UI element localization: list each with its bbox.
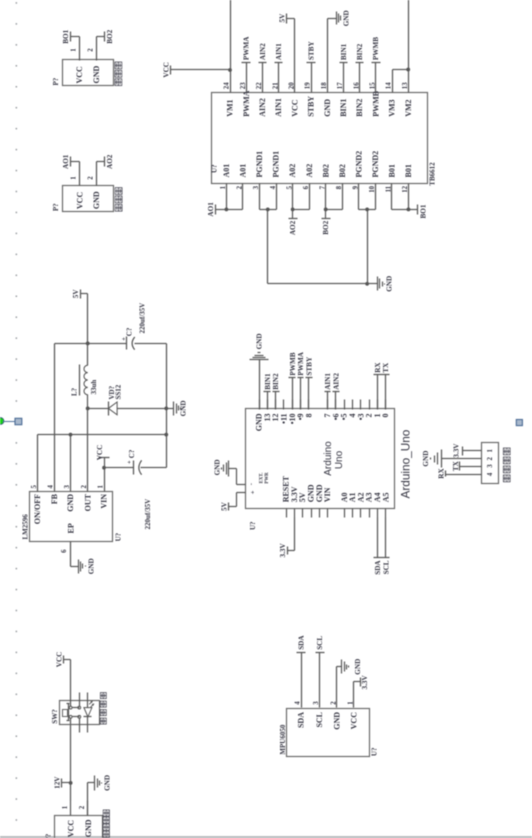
svg-text:U?: U? <box>370 747 378 756</box>
power flag 3.3V at mpu <box>361 675 370 690</box>
wire bt pin2 gnd <box>442 458 482 460</box>
diode VD? SS12 <box>88 384 167 415</box>
svg-text:13: 13 <box>402 82 409 89</box>
arduino left pin names <box>282 475 391 502</box>
output rail <box>55 343 167 345</box>
TB6612 left pin numbers 1-12 <box>220 185 409 192</box>
svg-text:BO2: BO2 <box>106 29 114 43</box>
svg-text:U?: U? <box>249 521 257 530</box>
junction pin12 BO1 <box>407 208 411 212</box>
pin 1 right motor <box>71 37 80 61</box>
svg-text:4: 4 <box>270 185 277 189</box>
svg-text:VCC: VCC <box>96 445 104 461</box>
ground GND at diode <box>167 400 188 416</box>
svg-text:VM2: VM2 <box>404 99 413 116</box>
svg-text:GND: GND <box>323 99 332 117</box>
net flag BO1 at motor <box>62 29 79 43</box>
svg-text:GND: GND <box>385 276 393 292</box>
svg-text:RX: RX <box>438 468 446 479</box>
marker blue square right <box>516 420 522 426</box>
svg-text:P?: P? <box>52 77 60 85</box>
svg-text:FB: FB <box>50 493 59 504</box>
svg-text:2: 2 <box>487 457 494 461</box>
svg-text:GND: GND <box>104 775 112 791</box>
svg-text:SCL: SCL <box>316 636 324 650</box>
ext pwr pins <box>248 472 270 494</box>
svg-text:19: 19 <box>305 82 312 89</box>
svg-text:STBY: STBY <box>307 96 316 117</box>
svg-text:+: + <box>250 490 257 494</box>
svg-text:GND: GND <box>422 451 430 467</box>
svg-text:GND: GND <box>256 333 264 349</box>
svg-text:24: 24 <box>224 82 231 89</box>
junction pins9-10 <box>365 208 369 212</box>
net flag AO2 at motor <box>97 154 115 169</box>
svg-text:1: 1 <box>98 485 105 489</box>
svg-text:3: 3 <box>487 464 494 468</box>
svg-text:BIN2: BIN2 <box>355 99 364 117</box>
svg-text:5V: 5V <box>221 501 229 511</box>
junction VIN node <box>102 466 106 470</box>
wire ext pwr plus to 5V <box>229 493 246 507</box>
svg-text:SDA: SDA <box>297 712 306 728</box>
wire bt pin4 RX <box>446 474 482 476</box>
TB6612 left pin names <box>222 151 413 178</box>
wire pgnd1 to gnd <box>267 210 269 284</box>
svg-text:BO1: BO1 <box>62 29 70 43</box>
TB6612 right pin numbers 24-13 <box>224 82 409 89</box>
ground GND at driver <box>368 276 394 292</box>
pin 6 EP stub <box>70 542 72 567</box>
net flag TX at bt <box>452 460 460 471</box>
svg-text:14: 14 <box>386 82 393 89</box>
net flag STBY at arduino <box>305 356 313 377</box>
wire pin9 PWMA <box>300 378 302 410</box>
svg-text:TB6612: TB6612 <box>428 162 436 186</box>
module U? Arduino_Uno <box>246 409 395 531</box>
wire pin1 RX <box>377 375 379 410</box>
svg-text:AIN1: AIN1 <box>324 373 332 390</box>
svg-text:PGND1: PGND1 <box>255 151 264 178</box>
wire VM3 VM2 join <box>393 70 409 93</box>
svg-text:B01: B01 <box>388 164 397 177</box>
junction gnd bus <box>164 433 168 437</box>
svg-text:A01: A01 <box>239 164 248 178</box>
svg-text:GND: GND <box>92 66 101 84</box>
svg-text:U?: U? <box>114 532 122 541</box>
svg-text:220uf/35V: 220uf/35V <box>139 303 147 334</box>
svg-text:1: 1 <box>71 176 78 180</box>
svg-text:GND: GND <box>342 10 350 26</box>
svg-text:EP: EP <box>66 523 75 533</box>
svg-text:PWMA: PWMA <box>297 351 305 375</box>
net flag AO2 at driver <box>289 210 298 236</box>
capacitor C? output 220uf/35V <box>120 303 146 350</box>
marker blue square left <box>15 418 22 424</box>
svg-text:33uh: 33uh <box>90 380 98 395</box>
power flag 12V <box>54 776 71 789</box>
svg-text:2: 2 <box>88 176 95 180</box>
svg-text:AIN1: AIN1 <box>275 43 283 60</box>
wire mpu vcc <box>354 682 361 708</box>
svg-text:A5: A5 <box>381 493 390 503</box>
svg-text:6: 6 <box>303 185 310 189</box>
svg-text:3.3V: 3.3V <box>279 543 287 558</box>
wire mpu SDA <box>301 653 303 708</box>
svg-text:SDA: SDA <box>374 560 382 575</box>
svg-text:VCC: VCC <box>75 192 84 210</box>
net flag SDA at mpu <box>297 635 306 653</box>
svg-text:PWR: PWR <box>265 472 270 484</box>
wire pin8 STBY <box>308 378 310 410</box>
ground GND at ext pwr inverted <box>213 459 228 476</box>
gnd vertical rail <box>38 434 167 436</box>
TB6612 right pin names <box>226 90 413 116</box>
power flag VCC at driver <box>162 62 230 78</box>
svg-text:VIN: VIN <box>323 487 332 502</box>
net flag TX at arduino <box>382 362 391 374</box>
svg-text:AO2: AO2 <box>106 154 114 169</box>
pin numbers LM2596 <box>31 485 104 553</box>
svg-text:+: + <box>126 460 133 464</box>
pin 1 battery <box>62 801 71 816</box>
power flag VCC at VIN <box>96 445 110 468</box>
svg-text:12V: 12V <box>54 776 62 789</box>
svg-text:AIN2: AIN2 <box>258 98 267 117</box>
junction VM node <box>406 68 410 72</box>
regulator U? LM2596 <box>21 492 122 542</box>
switch blade and button <box>63 704 70 721</box>
pin 2 battery <box>79 801 88 816</box>
connector P? left motor 左电机 <box>52 186 122 212</box>
svg-text:P?: P? <box>45 833 53 838</box>
svg-text:B01: B01 <box>404 164 413 177</box>
svg-text:GND: GND <box>84 819 93 837</box>
module U? MPU6050 <box>279 709 379 757</box>
svg-text:6: 6 <box>61 549 68 553</box>
marker link line <box>3 421 16 423</box>
svg-text:0: 0 <box>381 414 390 418</box>
svg-text:STBY: STBY <box>305 356 313 376</box>
svg-text:P?: P? <box>52 203 60 211</box>
svg-text:AIN1: AIN1 <box>274 98 283 117</box>
svg-text:PWMB: PWMB <box>289 352 297 375</box>
svg-text:BIN1: BIN1 <box>264 373 272 390</box>
wire GND pin to gnd rail <box>70 435 72 492</box>
svg-text:Uno: Uno <box>334 450 345 469</box>
svg-text:GND: GND <box>66 494 75 512</box>
svg-text:OUT: OUT <box>83 493 92 511</box>
TB6612 pin pair joins <box>227 209 409 211</box>
marker green probe <box>0 418 4 425</box>
svg-text:ON/OFF: ON/OFF <box>33 494 42 524</box>
wire battery- to ground <box>87 783 89 816</box>
wire VIN to VCC node <box>104 468 106 492</box>
svg-text:BIN2: BIN2 <box>356 43 364 60</box>
svg-text:VCC: VCC <box>290 99 299 117</box>
junction power ground <box>365 282 369 286</box>
net flag SDA <box>374 558 383 575</box>
svg-text:VIN: VIN <box>100 494 109 509</box>
svg-text:A01: A01 <box>222 164 231 178</box>
svg-text:B02: B02 <box>338 164 347 177</box>
wire A4 to SDA <box>377 518 379 558</box>
junction gnd rail pin3 <box>69 433 73 437</box>
svg-text:VCC: VCC <box>55 652 63 668</box>
svg-text:VCC: VCC <box>75 66 84 84</box>
svg-text:MPU6050: MPU6050 <box>279 724 287 754</box>
net flag BIN2 at arduino <box>272 373 280 391</box>
svg-text:220uf/35V: 220uf/35V <box>144 499 152 530</box>
net flag AO1 at driver <box>207 202 226 217</box>
svg-text:VCC: VCC <box>66 820 75 838</box>
arduino digital pin stubs <box>260 400 386 410</box>
ground bus wire <box>166 344 168 468</box>
wire 5V takeoff <box>87 294 89 344</box>
svg-text:3.3V: 3.3V <box>361 675 369 690</box>
net flag SCL at mpu <box>316 636 325 653</box>
net flag BO1 at driver <box>409 204 428 218</box>
svg-text:BIN1: BIN1 <box>339 99 348 117</box>
wire 3.3V pin flag <box>288 518 295 551</box>
module bluetooth 蓝牙模块 <box>482 443 511 484</box>
svg-text:PWMB: PWMB <box>371 90 380 116</box>
svg-text:PWMB: PWMB <box>372 37 380 60</box>
power flag 5V at arduino <box>221 501 229 511</box>
svg-text:PGND2: PGND2 <box>371 151 380 178</box>
wire pin0 TX <box>385 375 387 410</box>
svg-text:PWMA: PWMA <box>242 90 251 116</box>
net flag RX at arduino <box>374 362 382 375</box>
power flag 3.3V at arduino <box>279 543 288 558</box>
IC U? TB6612 motor driver <box>211 93 437 186</box>
junction switch node <box>86 407 90 411</box>
wire gnd pin arduino <box>259 360 261 410</box>
svg-text:SDA: SDA <box>298 635 306 650</box>
svg-text:AO1: AO1 <box>62 154 70 169</box>
net flag AO1 at motor <box>62 154 79 169</box>
wire VM1 to VCC <box>230 70 232 93</box>
svg-text:BO2: BO2 <box>322 220 330 234</box>
svg-text:VCC: VCC <box>349 712 358 730</box>
wire FB to output rail <box>54 344 56 492</box>
svg-text:BO1: BO1 <box>419 204 427 218</box>
junction diode gnd <box>164 407 168 411</box>
svg-text:8: 8 <box>304 414 313 418</box>
svg-text:AO1: AO1 <box>207 202 215 217</box>
junction pin1 AO1 <box>225 208 229 212</box>
svg-text:GND: GND <box>180 400 188 416</box>
power flag VCC main <box>55 652 70 668</box>
svg-text:BIN1: BIN1 <box>340 43 348 60</box>
wire pgnd2 to gnd <box>367 210 369 284</box>
svg-text:AO2: AO2 <box>289 220 297 235</box>
svg-text:C?: C? <box>128 449 136 458</box>
svg-text:VM1: VM1 <box>226 99 235 116</box>
wire VCC exit <box>230 0 232 70</box>
wire battery+ to switch <box>70 719 72 801</box>
pin 2 right motor <box>87 37 96 61</box>
svg-text:PGND1: PGND1 <box>272 151 281 178</box>
svg-text:VM3: VM3 <box>388 99 397 116</box>
junction 5V output node <box>86 342 90 346</box>
net flags right side <box>242 36 381 63</box>
svg-text:SCL: SCL <box>315 712 324 728</box>
LED inside switch <box>84 693 95 733</box>
svg-text:Arduino_Uno: Arduino_Uno <box>399 429 413 498</box>
arduino left pin stubs <box>287 509 386 518</box>
net flag BIN1 at arduino <box>264 373 272 391</box>
svg-text:SS12: SS12 <box>115 384 123 399</box>
svg-text:Arduino: Arduino <box>323 441 334 476</box>
wire ON/OFF to gnd rail <box>37 435 39 492</box>
svg-text:2: 2 <box>87 48 94 52</box>
svg-text:1: 1 <box>487 449 494 453</box>
svg-text:1: 1 <box>71 48 78 52</box>
svg-text:5V: 5V <box>278 13 286 23</box>
svg-text:23: 23 <box>240 82 247 89</box>
wire bt pin1 3.3V <box>463 450 482 452</box>
svg-text:4: 4 <box>487 472 494 476</box>
svg-text:B02: B02 <box>321 164 330 177</box>
svg-text:2: 2 <box>79 805 86 809</box>
power flag 3.3V at bt <box>453 443 463 458</box>
svg-text:AIN2: AIN2 <box>259 43 267 60</box>
wire bt pin3 TX <box>460 466 482 468</box>
ground GND at driver top <box>328 10 351 26</box>
svg-text:L?: L? <box>71 387 79 396</box>
svg-text:4: 4 <box>295 701 302 705</box>
net flag BO2 at motor <box>97 29 115 43</box>
wire pgnd vertical <box>268 283 368 285</box>
net flag RX at bt <box>438 468 446 479</box>
net flag AIN2 at arduino <box>332 373 340 392</box>
svg-text:TX: TX <box>452 460 460 471</box>
switch row2 stubs <box>79 693 81 733</box>
connector P? battery 锂电接口 <box>45 810 110 838</box>
svg-text:SCL: SCL <box>382 560 390 574</box>
svg-text:-: - <box>248 483 255 485</box>
inductor L? 33uh <box>71 344 98 409</box>
TB6612 right pin stubs <box>247 63 376 93</box>
connector P? right motor 右电机 <box>52 60 122 86</box>
net flag BO2 at driver <box>322 210 331 235</box>
ground GND at mpu <box>337 659 363 675</box>
switch SW1 自锁开关 <box>51 693 106 725</box>
ground GND at EP <box>71 558 96 574</box>
svg-text:GND: GND <box>354 659 362 675</box>
wire pin13 BIN1 <box>267 392 269 410</box>
wire pin7 AIN1 <box>327 392 329 410</box>
svg-text:TX: TX <box>382 362 390 373</box>
svg-text:GND: GND <box>213 459 221 475</box>
wire OUT to switch node <box>87 409 89 492</box>
ground GND at arduino sideways <box>250 333 269 359</box>
wire A5 to SCL <box>385 518 387 558</box>
power flag 5V at driver <box>278 13 286 24</box>
net flag AIN1 at arduino <box>324 373 332 392</box>
power flag 5V regulator <box>72 289 87 299</box>
wire ext pwr minus to gnd <box>229 469 246 485</box>
svg-text:U?: U? <box>211 164 219 173</box>
svg-text:+: + <box>120 337 127 341</box>
junction pin5 AO2 <box>291 208 295 212</box>
junction pin7 BO2 <box>324 208 328 212</box>
net flag SCL <box>382 558 391 575</box>
svg-text:VCC: VCC <box>162 62 170 78</box>
wire pin12 BIN2 <box>275 392 277 410</box>
svg-text:3.3V: 3.3V <box>453 443 461 458</box>
svg-text:1: 1 <box>62 805 69 809</box>
wire pin6 AIN2 <box>335 392 337 410</box>
pin 2 left motor <box>88 162 97 186</box>
TB6612 left pin stubs <box>227 184 409 210</box>
wire mpu gnd <box>336 667 338 708</box>
svg-text:4: 4 <box>48 485 55 489</box>
wire pin20 to 5V <box>287 19 295 93</box>
ground GND at bt inverted <box>422 450 441 468</box>
mpu pin numbers <box>295 701 355 705</box>
svg-text:LM2596: LM2596 <box>21 514 29 540</box>
pin 1 left motor <box>71 162 80 186</box>
arduino digital pin names <box>255 413 391 431</box>
svg-text:BIN2: BIN2 <box>272 373 280 390</box>
net flag PWMB at arduino <box>289 352 297 377</box>
svg-text:C?: C? <box>125 327 133 336</box>
svg-text:A02: A02 <box>288 164 297 178</box>
svg-text:RX: RX <box>374 362 382 373</box>
svg-text:GND: GND <box>333 712 342 730</box>
wire switch to VCC <box>70 660 72 707</box>
svg-text:PWMA: PWMA <box>243 36 251 60</box>
svg-text:STBY: STBY <box>307 41 315 61</box>
wire pin18 to GND <box>327 19 329 93</box>
svg-text:AIN2: AIN2 <box>332 373 340 390</box>
capacitor C? input 220uf/35V <box>105 449 167 529</box>
junction VCC node driver <box>228 68 232 72</box>
switch contacts <box>69 706 81 718</box>
wire VM exit <box>408 0 410 70</box>
wire pin10 PWMB <box>292 378 294 410</box>
svg-text:GND: GND <box>92 191 101 209</box>
svg-text:EXT.: EXT. <box>259 473 264 484</box>
svg-text:SW?: SW? <box>51 709 59 724</box>
net flag PWMA at arduino <box>297 351 305 377</box>
junction pins3-4 <box>266 208 270 212</box>
label Arduino Uno inside <box>323 441 345 476</box>
svg-text:5V: 5V <box>72 289 80 299</box>
svg-text:GND: GND <box>87 558 95 574</box>
svg-text:18: 18 <box>321 82 328 89</box>
ground GND battery <box>88 775 112 791</box>
wire mpu SCL <box>319 653 321 708</box>
svg-text:PGND2: PGND2 <box>354 151 363 178</box>
junction 12V node <box>69 781 73 785</box>
svg-text:A02: A02 <box>305 164 314 178</box>
